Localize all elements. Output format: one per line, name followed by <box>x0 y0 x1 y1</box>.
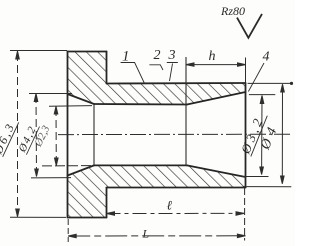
flange top edge <box>68 51 107 53</box>
taper junction edge / h extension <box>185 57 187 166</box>
cone junction edge <box>93 104 95 165</box>
svg-text:2: 2 <box>154 48 161 63</box>
dimension line D3.2 <box>261 97 263 173</box>
dimension line l <box>107 212 245 214</box>
flange right edge lower <box>106 188 108 218</box>
leader 2 <box>149 65 163 70</box>
entrance cone upper <box>68 94 95 104</box>
bore top edge <box>94 103 187 106</box>
dimension line D4 <box>281 86 283 183</box>
extension line top flange <box>10 50 67 52</box>
roughness check mark <box>237 14 262 38</box>
entrance cone lower <box>68 165 95 175</box>
left face extension down <box>67 219 69 242</box>
extension line entrance bore top <box>29 93 72 95</box>
label D4 rotated <box>258 121 282 153</box>
right face extension up for h <box>245 58 247 84</box>
svg-text:ℓ: ℓ <box>167 198 173 213</box>
exit taper upper <box>187 92 246 105</box>
upper section hatch <box>68 52 246 105</box>
svg-text:Ø6,3: Ø6,3 <box>0 120 18 157</box>
flange bottom edge <box>68 217 107 219</box>
centerline <box>58 133 292 135</box>
right face extension down <box>244 188 246 241</box>
bore bottom edge <box>94 164 187 166</box>
leader 1 <box>121 63 145 84</box>
extension body bottom right <box>243 186 291 188</box>
extension body top right <box>248 82 293 84</box>
label D3,2 rotated <box>237 110 267 156</box>
svg-text:Rz80: Rz80 <box>220 4 245 18</box>
label D2,3 rotated <box>32 123 53 149</box>
extension line bottom flange <box>10 216 66 218</box>
right face <box>245 83 247 188</box>
leader 4 <box>248 63 264 92</box>
extension line channel bottom <box>42 165 93 167</box>
svg-text:h: h <box>209 49 216 64</box>
dimension line h <box>186 64 246 66</box>
dimension line D6.3 <box>17 53 19 215</box>
svg-text:4: 4 <box>263 50 270 65</box>
label D4,2 rotated <box>16 122 40 155</box>
lower section hatch <box>68 165 246 217</box>
left face <box>67 52 69 218</box>
leader 3 <box>167 63 178 82</box>
svg-text:3: 3 <box>168 48 176 63</box>
flange right edge upper <box>106 52 108 84</box>
extension line entrance bore bottom <box>31 177 71 179</box>
exit taper lower <box>187 165 246 177</box>
body top edge <box>107 82 246 85</box>
svg-text:L: L <box>142 227 150 241</box>
extension exit bore bottom <box>241 176 268 178</box>
dimension line L <box>68 235 245 237</box>
label D6,3 rotated <box>0 117 19 157</box>
body bottom edge <box>107 187 246 189</box>
extension line channel top <box>49 105 92 108</box>
svg-text:1: 1 <box>122 49 130 65</box>
extension exit bore top <box>249 94 275 96</box>
dimension line D4.2 <box>35 95 38 175</box>
dimension line D2.3 <box>55 108 57 164</box>
dot on body-top extension <box>290 82 293 85</box>
